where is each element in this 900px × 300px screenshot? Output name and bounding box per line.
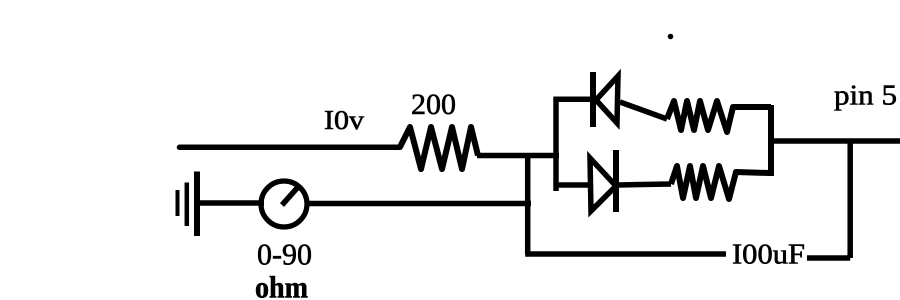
rheostat VR1 circle <box>261 181 307 227</box>
wire: diode D1 to resistor R2 <box>620 102 667 119</box>
wire: diode D2 to resistor R3 <box>618 184 671 185</box>
dot mark <box>668 34 674 40</box>
resistor R2 top zigzag <box>667 101 771 132</box>
wire: stub to diode D1 <box>554 96 592 102</box>
wire: bottom rail to capacitor label <box>525 251 726 257</box>
resistor R1 200 ohm zigzag <box>400 127 478 169</box>
svg-text:0-90: 0-90 <box>257 237 312 272</box>
diode D2 triangle <box>590 158 616 211</box>
wire: junction vertical at node <box>525 156 531 255</box>
ground <box>178 172 198 237</box>
wire: ground to rheostat <box>198 200 264 206</box>
diode D1 triangle <box>596 76 618 123</box>
wire: resistor R1 to node <box>477 153 559 159</box>
wire: capacitor to output vertical <box>807 255 850 261</box>
svg-text:ohm: ohm <box>255 270 308 300</box>
svg-text:200: 200 <box>411 88 456 121</box>
wire: stub to diode D2 <box>554 182 591 188</box>
diode D1 cathode bar <box>590 72 596 127</box>
wire: output vertical drop <box>847 141 853 258</box>
node bar: left side of diode pair <box>553 97 559 191</box>
svg-text:pin 5: pin 5 <box>834 81 897 112</box>
wire: top input <box>180 145 401 151</box>
diode D2 cathode bar <box>613 150 619 212</box>
resistor R3 bottom zigzag <box>671 166 769 199</box>
rheostat VR1 wiper <box>282 187 298 205</box>
wire: output to pin 5 <box>771 138 900 144</box>
node bar: right side of diode pair <box>768 105 774 176</box>
wire: rheostat to node <box>307 201 531 207</box>
svg-text:I0v: I0v <box>324 104 364 135</box>
svg-text:I00uF: I00uF <box>732 240 805 271</box>
